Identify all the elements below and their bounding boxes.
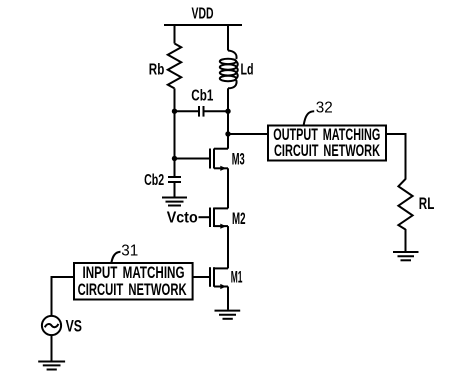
input matching circuit network box 31 bbox=[74, 263, 193, 300]
wire right branch middle bbox=[227, 88, 229, 148]
ground under Cb2 bbox=[162, 183, 187, 206]
wire VS to ground bbox=[51, 335, 53, 361]
svg-text:M1: M1 bbox=[231, 268, 243, 287]
wire RL to ground bbox=[405, 229, 407, 251]
resistor Rb bbox=[168, 44, 181, 89]
svg-text:M3: M3 bbox=[232, 150, 245, 169]
svg-text:Cb2: Cb2 bbox=[144, 172, 164, 189]
wire output box to RL bbox=[386, 134, 406, 180]
wire left branch top bbox=[174, 25, 176, 44]
node output junction bbox=[225, 131, 230, 136]
wire M3 source to M2 drain bbox=[227, 168, 229, 208]
svg-text:32: 32 bbox=[316, 99, 333, 116]
output matching circuit network box 32 bbox=[268, 125, 386, 161]
svg-text:Vcto: Vcto bbox=[167, 210, 198, 227]
leader line 31 bbox=[111, 252, 120, 263]
svg-text:31: 31 bbox=[121, 242, 138, 259]
svg-text:CIRCUIT NETWORK: CIRCUIT NETWORK bbox=[78, 280, 187, 299]
svg-text:Rb: Rb bbox=[149, 62, 165, 79]
wire M2 source to M1 drain bbox=[227, 226, 229, 268]
transistor M2 bbox=[199, 208, 229, 229]
capacitor Cb2 bbox=[168, 177, 181, 182]
svg-text:Cb1: Cb1 bbox=[191, 88, 213, 105]
ground under VS bbox=[38, 362, 65, 370]
leader line 32 bbox=[304, 111, 315, 126]
node gate of M3 junction bbox=[172, 156, 177, 161]
resistor RL bbox=[398, 179, 412, 230]
ground under M1 bbox=[215, 311, 241, 319]
ground under RL bbox=[393, 252, 419, 260]
node Cb1 left junction bbox=[172, 109, 177, 114]
node Cb1 right junction bbox=[225, 109, 230, 114]
VDD rail wire bbox=[164, 24, 242, 26]
wire input box to VS bbox=[52, 277, 75, 316]
wire output node to box bbox=[228, 133, 268, 135]
transistor M1 bbox=[193, 267, 228, 289]
wire right branch top bbox=[227, 25, 229, 51]
source VS bbox=[42, 316, 61, 335]
svg-text:VDD: VDD bbox=[192, 5, 214, 22]
wire left branch middle bbox=[174, 88, 176, 176]
svg-text:Ld: Ld bbox=[241, 62, 254, 79]
svg-text:VS: VS bbox=[66, 316, 82, 335]
wire M1 source down bbox=[227, 287, 229, 310]
svg-text:M2: M2 bbox=[232, 209, 246, 228]
svg-text:CIRCUIT NETWORK: CIRCUIT NETWORK bbox=[274, 141, 380, 160]
svg-text:RL: RL bbox=[419, 194, 435, 213]
inductor Ld bbox=[220, 51, 238, 89]
capacitor Cb1 bbox=[175, 106, 229, 117]
transistor M3 bbox=[175, 149, 229, 171]
